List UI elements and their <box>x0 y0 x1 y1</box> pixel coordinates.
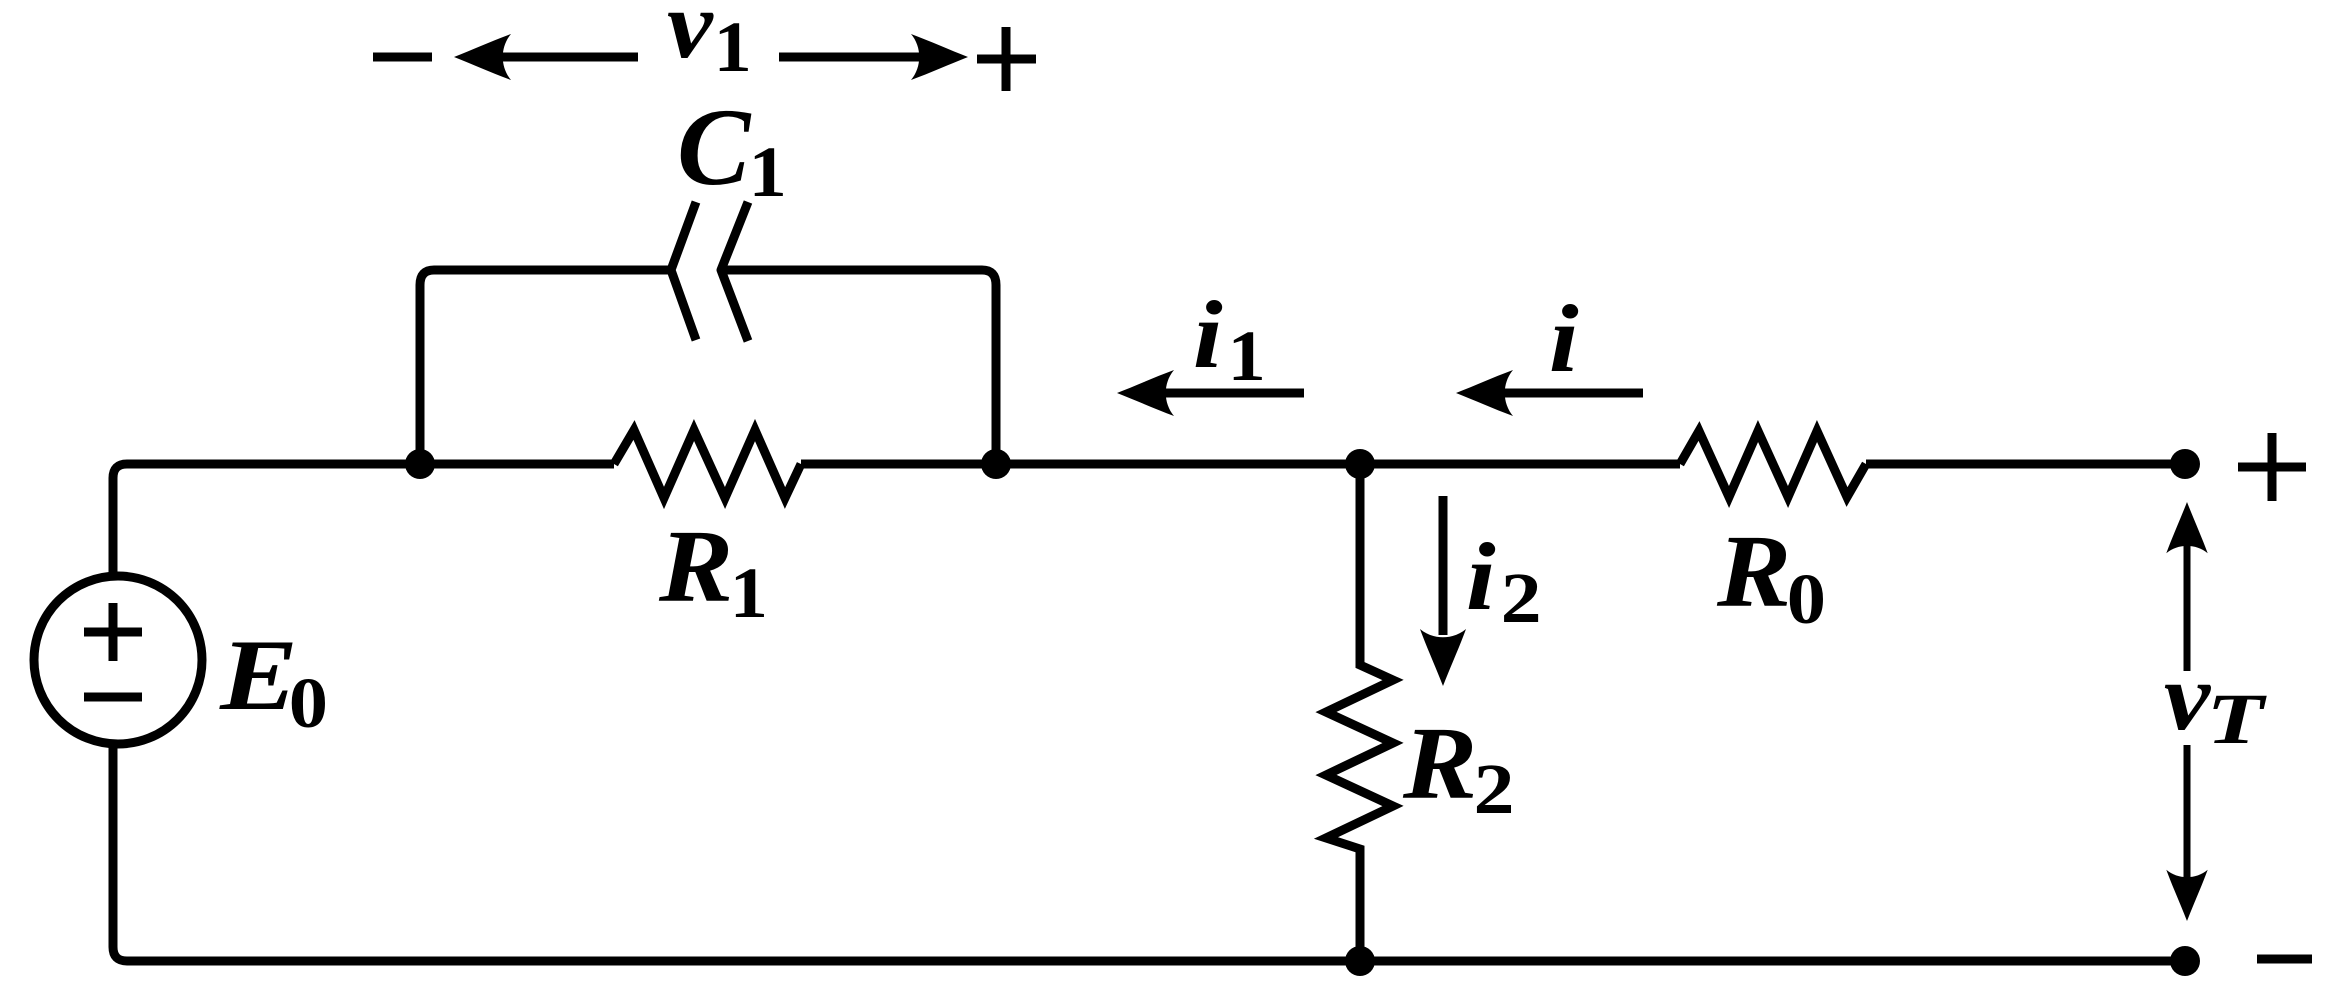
svg-text:T: T <box>2206 680 2267 759</box>
svg-text:R: R <box>1716 514 1791 629</box>
svg-text:i: i <box>1466 524 1496 631</box>
svg-text:R: R <box>658 509 733 624</box>
svg-text:1: 1 <box>1228 317 1266 397</box>
svg-text:E: E <box>219 618 298 732</box>
svg-text:v: v <box>2164 644 2212 750</box>
svg-text:i: i <box>1549 286 1579 393</box>
svg-text:C: C <box>677 86 752 208</box>
svg-text:0: 0 <box>289 664 328 743</box>
svg-text:i: i <box>1193 282 1223 389</box>
svg-text:2: 2 <box>1501 558 1542 638</box>
svg-text:v: v <box>667 0 715 78</box>
svg-text:0: 0 <box>1787 560 1826 639</box>
svg-text:1: 1 <box>749 133 787 213</box>
svg-text:1: 1 <box>714 8 752 88</box>
svg-text:1: 1 <box>730 554 768 634</box>
svg-text:R: R <box>1402 706 1477 821</box>
svg-text:2: 2 <box>1474 749 1515 829</box>
